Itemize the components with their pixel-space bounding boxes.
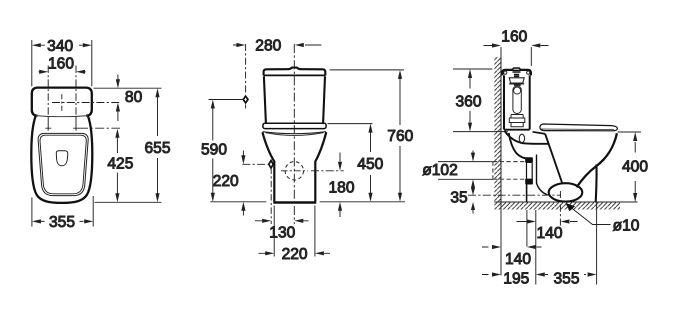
arrow 655 top [155,88,159,97]
dim 180 outside arrows [339,153,341,218]
seat inner split line [541,128,614,131]
svg-text:360: 360 [455,94,481,111]
dim 160 outside arrows [484,45,549,47]
arrow 160 left [492,43,501,47]
dim line 160 arrows outside [39,71,86,73]
floor extension line right [320,201,405,203]
svg-text:195: 195 [503,270,529,287]
arrow 140 lower right [527,245,536,249]
svg-text:450: 450 [357,156,383,173]
dim line 425 [116,138,118,195]
cistern front edge thin line [36,116,89,117]
right hinge hole cross [73,116,79,131]
extension line lower140 below floor [526,210,528,247]
seat inner outline [40,135,86,194]
extension line 340 right [91,40,93,86]
arrow 160 left [39,70,48,74]
dim 130 arrows [255,220,309,222]
cistern body sides front view [264,76,325,123]
flush valve collar bar [509,84,524,85]
svg-text:340: 340 [47,38,73,55]
extension line 160 left (wall face up) [500,47,502,67]
bowl back top edge [533,132,546,134]
arrow 450 top [368,124,372,133]
arrow 140 upper right [560,219,569,223]
outlet ellipse [549,183,583,201]
side inlet reference dash-dot line [242,163,268,165]
dim 140 upper arrows [517,221,578,223]
cistern body side view [504,75,530,129]
arrow 590 bottom [211,193,215,202]
dim line 450 [370,133,372,194]
outlet spud top flange [525,157,533,163]
arrow 80 top [116,79,120,88]
wall face line [500,57,502,202]
tank center horizontal centerline to 80 dim [52,102,120,104]
arrow o10 [566,203,576,211]
arrow 220 bottom right [315,251,324,255]
svg-text:160: 160 [501,29,527,46]
svg-text:220: 220 [282,246,308,263]
arrow 425 bottom [115,193,119,202]
arrow o102 bottom [471,179,475,188]
floor line [494,201,637,203]
dim line 80 outside arrows [117,75,119,122]
dim 195/355 arrows [482,274,586,276]
svg-text:ø10: ø10 [613,218,640,235]
side inlet diamond node [268,159,274,170]
svg-text:355: 355 [553,270,579,287]
arrow 35 top [471,187,475,195]
dim line 655 [157,97,159,194]
svg-text:425: 425 [107,156,133,173]
foot back edge [526,185,528,203]
arrow 400 bottom [633,193,637,202]
reference dash-dot line 180 [311,170,344,172]
svg-text:355: 355 [49,214,75,231]
arrow 195 left [492,272,501,276]
flush valve tube top circle [514,87,521,94]
svg-text:400: 400 [622,159,648,176]
seat outer outline [38,133,88,195]
seat and cover side view [540,124,617,131]
extension line bowl front below floor [596,202,598,285]
svg-text:80: 80 [125,89,143,106]
cistern lid bottom edge [264,74,326,76]
main vertical centerline [293,44,295,224]
centerline vertical left hole (160) [47,66,49,117]
arrow 355 left [536,272,545,276]
cistern lid bolts [504,71,507,74]
arrow 360 bottom [468,123,472,132]
svg-text:35: 35 [450,189,468,206]
dim o102 outside arrows [472,151,474,189]
dim line 590 [212,108,214,193]
floor hatch [494,202,620,210]
extension line 400 top [618,131,642,133]
supply node diamond [242,95,249,105]
arrow 760 top [398,70,402,79]
flush pipe oval [519,134,524,142]
svg-text:280: 280 [255,37,281,54]
arrow 220 left bottom [241,202,245,211]
extension line 355 right [92,196,94,227]
extension line 360 top [453,68,492,70]
water spot [56,151,68,166]
pedestal front edge [595,165,598,203]
extension line bowl bottom right (655 bottom / 425 bottom) [95,201,162,203]
flush passage upper curve [505,131,549,144]
arrow 160 right [531,43,540,47]
arrow 400 top [633,132,637,141]
bowl rim lens upper arc [263,132,326,134]
outlet centerline vertical [559,191,561,227]
dim line 355 [41,220,84,222]
svg-text:220: 220 [213,173,239,190]
arrow 35 bottom [471,202,475,210]
outlet spud bottom flange [525,179,533,185]
arrow 140 upper left [527,219,536,223]
svg-text:760: 760 [387,128,413,145]
extension line 220 bottom left [273,206,275,257]
centerline vertical right hole (160) [75,66,77,117]
arrow 355 right [588,272,597,276]
arrow 280 right [295,43,304,47]
svg-text:590: 590 [201,142,227,159]
arrow 140 lower left [492,245,501,249]
arrow 220 left top [241,155,245,164]
flush valve base stack [509,115,525,127]
reference dash-dot line 35 [468,194,561,196]
cistern bottom edge [504,129,530,131]
arrow 590 top [211,100,215,109]
left hinge hole cross [45,116,51,131]
dim 220 bottom arrows [259,252,331,254]
extension line wall face below floor [500,202,502,276]
svg-text:130: 130 [269,224,295,241]
svg-text:140: 140 [505,251,531,268]
dim line 360 [469,78,471,123]
arrow 425 top [115,129,119,138]
arrow 655 bottom [155,193,159,202]
extension line 355 left [31,198,33,227]
svg-text:ø102: ø102 [422,162,458,179]
wall hatch [494,57,501,202]
svg-text:655: 655 [144,140,170,157]
flush button stack below lid [513,72,521,76]
trapway diagonal [545,134,562,184]
outlet center cross horizontal [281,170,308,172]
hidden outlet pipe dashed rect [493,162,526,180]
arrow 340 left [32,43,41,47]
svg-text:160: 160 [48,55,74,72]
extension line o102 top [438,161,493,163]
dim line 340 [41,44,83,46]
dim line 760 [399,79,401,194]
outlet spud body sides [527,163,533,179]
cistern lid front view with button bump [264,68,326,76]
cistern top view [32,88,92,116]
arrow o102 top [471,153,475,162]
supply node centerline vertical [245,44,247,109]
tank center mark cross [61,94,63,111]
arrow 80 bottom [116,103,120,112]
bowl left side to pedestal [262,132,274,201]
arrow 180 top [338,162,342,171]
extension line 450 top [328,123,373,125]
flush passage lower sweep to spud [509,133,530,159]
dim 140 lower arrows [482,246,542,248]
hinge centerline extension to 425 dim [79,127,120,129]
arrow 130 right [294,219,303,223]
bowl outline top view [31,117,92,203]
flush valve cap trapezoid [509,78,524,83]
arrow 160 right [76,70,85,74]
arrow 220 bottom left [265,251,274,255]
bowl front sweep profile [577,133,617,187]
arrow 760 bottom [398,193,402,202]
supply node horizontal reference 590 [209,99,243,101]
floor extension line left [210,201,266,203]
svg-text:180: 180 [328,180,354,197]
bowl rim lens lower arc [266,133,324,136]
flush valve tube [513,86,521,114]
arrow 130 left [262,219,271,223]
arrow 360 top [468,69,472,78]
cistern lid side view [502,70,531,76]
leader o10 diagonal [569,206,611,225]
arrow 355 right [84,219,93,223]
extension line 220 bottom right [314,206,316,257]
cistern lid button bump [513,68,520,70]
arrow 280 left [236,43,245,47]
hidden outlet dashed circle [285,162,303,180]
extension line 340 left [31,40,33,86]
extension line foot front below floor [535,210,537,285]
bowl right side to pedestal [315,132,326,201]
extension line tank top right (655 top / 80 top) [94,87,162,89]
arrow 450 bottom [368,193,372,202]
dim line 400 [634,142,636,193]
extension line 160 right (tank front up) [530,47,532,66]
foot front edge [537,155,548,195]
pedestal bottom edge [273,201,316,203]
cistern base band [263,123,326,128]
dim 35 lower tail [472,210,474,214]
extension line 360 bottom / seat level [453,131,508,133]
arrow 180 bottom [338,202,342,211]
arrow 355 left [32,219,41,223]
extension line 760 top [330,69,404,71]
svg-text:140: 140 [536,225,562,242]
dim 220 left outside arrows [242,151,244,216]
extension line o102 bottom [438,178,493,180]
arrow 340 right [83,43,92,47]
dim line 280 [233,44,321,46]
side inlet vertical dashed line down [270,168,272,225]
